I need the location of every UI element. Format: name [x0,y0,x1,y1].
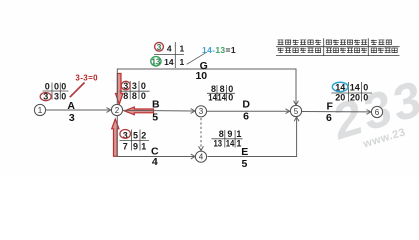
red circle around ES 3 of table G [155,42,164,51]
float table B grid [120,81,150,100]
svg-text:B: B [152,99,160,111]
dummy activity dashed arrow 3-4 [199,118,204,151]
svg-text:14: 14 [208,92,217,102]
watermark 233 [325,70,419,150]
node 4 [195,151,206,162]
wire B arrow 2-3 [123,109,195,114]
float table B row1: 3 3 0 [123,81,146,91]
float table C grid [120,130,150,151]
svg-text:0: 0 [141,81,146,91]
svg-text:14-13=1: 14-13=1 [202,45,236,55]
red circle around ES 3 of table C [120,130,131,139]
node 5 [290,105,301,116]
wire D arrow 3-5 [207,109,290,114]
svg-text:3: 3 [132,81,137,91]
wire A arrow 1-2 [46,108,111,113]
svg-text:6: 6 [375,108,380,117]
wire C path 2-4 (down, right) [117,116,195,159]
svg-text:8: 8 [132,91,137,101]
svg-text:1: 1 [180,57,185,67]
svg-text:3: 3 [54,91,59,101]
svg-text:0: 0 [61,82,66,92]
svg-text:3: 3 [69,112,75,124]
float table A row1: 0 0 0 [45,82,67,92]
svg-text:4: 4 [152,156,158,168]
float table D row2: 14 14 0 [208,92,233,102]
svg-text:F: F [326,100,333,112]
float table E grid [212,130,243,148]
svg-text:9: 9 [133,141,138,151]
svg-text:0: 0 [54,82,59,92]
svg-text:14: 14 [217,92,226,102]
svg-text:A: A [67,100,75,112]
node 2 [111,104,122,115]
legend table frame [276,38,400,55]
svg-text:13: 13 [214,139,223,149]
legend row1 text: 最早开始时间 | 最迟开始时间 | 总时差 [278,40,392,45]
svg-text:2: 2 [141,130,146,140]
red thick arrow up at node 2 [112,119,119,156]
svg-text:10: 10 [195,70,207,82]
float table E row2: 13 14 1 [214,139,242,149]
wire F arrow 5-6 [302,110,371,115]
svg-text:5: 5 [294,107,299,116]
svg-text:D: D [242,99,250,111]
svg-text:4: 4 [167,44,172,54]
float table E row1: 8 9 1 [219,129,242,139]
svg-text:0: 0 [363,93,368,103]
svg-text:5: 5 [241,158,247,170]
svg-text:3: 3 [199,107,204,116]
float table G row2: 13 14 1 [151,57,184,67]
svg-text:6: 6 [243,111,249,123]
float table F grid [331,82,372,102]
blue circle around ES 14 of table F [332,82,348,91]
float table C row1: 3 5 2 [123,130,147,140]
svg-text:8: 8 [123,91,128,101]
node 6 [371,106,382,117]
pointer line from FF cell to formula [187,52,207,64]
svg-text:3-3=0: 3-3=0 [75,74,98,83]
red annotation pointer line [70,83,85,98]
green circle around EF 13 of table G [151,57,161,66]
wire E path 4-5 (right, up) [208,117,300,157]
float table D row1: 8 8 0 [211,84,233,94]
float table G grid [154,42,184,68]
watermark www url [361,126,407,150]
svg-text:4: 4 [199,153,204,162]
wire G path 2-5 (up, right, down) [117,69,298,105]
svg-text:0: 0 [61,91,66,101]
float table A row2: 3 3 0 [43,91,66,101]
float table B row2: 8 8 0 [123,91,146,101]
svg-text:0: 0 [45,82,50,92]
svg-text:0: 0 [141,91,146,101]
svg-text:6: 6 [326,112,332,124]
svg-text:1: 1 [38,106,43,115]
float table G row1: 3 4 1 [157,42,185,54]
float table F row1: 14 14 0 [335,82,368,92]
svg-text:0: 0 [228,92,233,102]
svg-text:20: 20 [335,93,345,103]
svg-text:14: 14 [164,57,174,67]
float table C row2: 7 9 1 [123,141,147,151]
svg-text:1: 1 [236,139,241,149]
svg-text:5: 5 [133,130,138,140]
svg-text:1: 1 [180,44,185,54]
svg-text:20: 20 [350,93,360,103]
float table A grid [43,83,69,100]
svg-text:2: 2 [115,106,120,115]
svg-text:14: 14 [226,139,235,149]
legend row2 text: 最早完成时间 | 最迟完成时间 | 自由时差 [278,48,398,53]
red thick arrow down at node 2 [116,74,123,105]
red circle around EF 3 of table A [40,93,51,101]
node 1 [34,104,45,115]
svg-text:0: 0 [363,82,368,92]
red circle around ES 3 of table B [121,81,130,90]
float table F row2: 20 20 0 [335,93,368,103]
svg-text:14: 14 [350,82,360,92]
svg-text:E: E [241,146,248,158]
red thick arrow left at node 2 [125,107,154,115]
float table D grid [207,85,235,101]
svg-text:1: 1 [141,141,146,151]
svg-text:5: 5 [152,112,158,124]
node 3 [195,106,206,117]
svg-text:7: 7 [123,141,128,151]
